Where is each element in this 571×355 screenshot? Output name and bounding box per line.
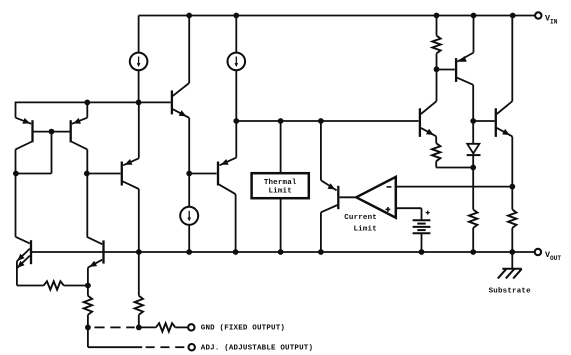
resistor R5 xyxy=(44,281,64,289)
wire Q1-Q2 base tie xyxy=(34,131,70,133)
transistor Q5 xyxy=(217,162,219,186)
wire U1 plus input xyxy=(396,207,422,209)
wire Q10 emitter2 diagonal xyxy=(17,256,30,269)
wire I2 bottom xyxy=(235,70,237,121)
wire Q6 emitter diagonal xyxy=(321,180,337,190)
wire Q2 collector diagonal xyxy=(71,142,87,150)
transistor Q3 xyxy=(171,90,173,114)
wire base tap drop xyxy=(51,132,53,174)
node D1-R3 junction xyxy=(470,165,476,171)
wire ADJ branch solid xyxy=(88,346,142,348)
wire Q4 base xyxy=(87,173,121,175)
label U1 minus input xyxy=(387,186,392,188)
wire R4 bottom lead xyxy=(511,228,513,252)
node rail-Q9 junction xyxy=(510,13,516,19)
svg-text:ADJ. (ADJUSTABLE OUTPUT): ADJ. (ADJUSTABLE OUTPUT) xyxy=(201,345,313,353)
node bias-I2 junction xyxy=(233,118,239,124)
svg-text:Limit: Limit xyxy=(353,226,376,234)
wire Q8 collector drop xyxy=(472,85,474,121)
wire Q3 collector riser xyxy=(188,16,190,84)
wire Q4 emitter diagonal xyxy=(123,158,139,165)
wire Q6 collector diagonal xyxy=(321,205,338,212)
wire Q1 collector diagonal xyxy=(16,142,33,150)
node Q8 collector-D1 junction xyxy=(470,118,476,124)
wire D1 cathode lead xyxy=(472,155,474,167)
wire Q2 collector drop xyxy=(86,149,88,236)
transistor Q11 xyxy=(102,240,104,263)
svg-text:Current: Current xyxy=(344,214,377,222)
node base tie tap xyxy=(49,129,55,135)
wire R2 to diode node xyxy=(436,167,473,169)
wire R7 bottom lead xyxy=(138,315,140,328)
wire Q9 collector diagonal xyxy=(497,101,513,114)
wire Q1 collector drop xyxy=(15,149,17,236)
transistor Q8 xyxy=(455,58,457,82)
wire Q7 emitter diagonal xyxy=(421,128,436,136)
node rail-thermal junction xyxy=(278,249,284,255)
node R7-GND net junction xyxy=(136,325,142,331)
terminal GND xyxy=(188,324,194,330)
wire Q8 collector diagonal xyxy=(457,78,473,85)
wire Q7 collector diagonal xyxy=(421,101,437,114)
terminal V_OUT xyxy=(535,249,541,255)
svg-text:Thermal: Thermal xyxy=(264,179,297,187)
node rail-R1 junction xyxy=(434,13,440,19)
transistor Q9 xyxy=(495,108,497,137)
svg-text:Substrate: Substrate xyxy=(489,287,531,295)
resistor R2 xyxy=(432,143,440,161)
wire V_OUT rail xyxy=(32,251,534,253)
wire I1 bottom xyxy=(138,70,140,102)
wire Q11 collector diagonal xyxy=(87,237,102,244)
wire Q4 collector diagonal xyxy=(123,181,139,189)
wire Q4 emitter feed xyxy=(138,102,140,158)
node rail-Q6 junction xyxy=(318,249,324,255)
wire Q7 emitter lead xyxy=(435,136,437,143)
wire R1 bottom lead xyxy=(436,53,438,69)
node rail-I2 junction xyxy=(233,13,239,19)
wire R7 top lead xyxy=(138,252,140,296)
wire Q10 emitter to R5 xyxy=(17,285,44,287)
transistor Q7 xyxy=(419,108,421,137)
resistor R6 xyxy=(84,296,92,315)
wire Q6 emitter feed xyxy=(320,121,322,180)
wire mirror bus y=102 xyxy=(16,101,171,103)
wire R6 bottom lead xyxy=(87,315,89,328)
terminal V_IN xyxy=(535,12,541,18)
wire Q9 collector riser xyxy=(511,16,513,102)
wire GND branch xyxy=(139,326,156,328)
wire Q1 emitter diagonal xyxy=(16,118,32,124)
wire R3 top lead xyxy=(472,168,474,210)
node bias-thermal junction xyxy=(278,118,284,124)
node Q2 emitter junction xyxy=(84,100,90,106)
wire Q2 emitter diagonal xyxy=(72,118,87,124)
wire Q10 emitter drop xyxy=(16,261,18,285)
wire U1 minus input xyxy=(396,186,513,188)
wire Q5 collector diagonal xyxy=(219,184,236,194)
node rail-V1 junction xyxy=(419,249,425,255)
wire Q7 collector riser xyxy=(436,69,438,101)
resistor R4 xyxy=(508,210,516,228)
resistor R3 xyxy=(469,210,477,228)
transistor Q1 xyxy=(31,120,33,142)
wire I3 bottom xyxy=(188,225,190,252)
node rail-Q4 junction xyxy=(136,249,142,255)
wire Q5 base xyxy=(189,173,216,175)
wire dashed feedback tap xyxy=(94,326,104,328)
wire I1 top xyxy=(138,16,140,53)
wire thermal limit top lead xyxy=(280,121,282,172)
current source I1 xyxy=(130,53,148,71)
wire R6 top lead xyxy=(87,286,89,296)
battery V1 reference xyxy=(413,219,431,221)
wire Q3 emitter diagonal xyxy=(173,109,189,118)
svg-text:GND (FIXED OUTPUT): GND (FIXED OUTPUT) xyxy=(201,325,285,333)
node rail-Q8 junction xyxy=(471,13,477,19)
wire plus input drop xyxy=(421,208,423,219)
node rail-R3 junction xyxy=(470,249,476,255)
wire Q11 emitter diagonal xyxy=(88,260,102,268)
current source I3 xyxy=(180,207,198,225)
wire Q5 collector drop xyxy=(235,194,237,252)
transistor Q10 xyxy=(30,240,32,264)
node Q4 emitter junction xyxy=(136,100,142,106)
wire base tap to mirror node xyxy=(15,173,51,175)
resistor R7 xyxy=(135,296,143,315)
diode D1 xyxy=(467,144,479,154)
wire V1 bottom xyxy=(421,233,423,252)
label U1 plus input xyxy=(386,208,391,210)
wire Q10 collector diagonal xyxy=(16,237,30,244)
node Q11 emitter-R5 junction xyxy=(85,283,91,289)
wire Q5 emitter diagonal xyxy=(220,158,237,166)
ground substrate symbol xyxy=(502,268,521,270)
wire Q4 collector drop xyxy=(138,189,140,252)
wire ADJ drop xyxy=(87,327,89,347)
wire bias bus y=121 xyxy=(236,120,418,122)
node rail-I3 junction xyxy=(186,249,192,255)
wire Q3 collector diagonal xyxy=(173,83,189,96)
op-amp U1 current limit amplifier xyxy=(356,177,396,218)
transistor Q6 xyxy=(337,186,339,209)
wire I2 top xyxy=(235,16,237,53)
wire Q5 emitter feed xyxy=(235,121,237,158)
wire Q8 base xyxy=(437,69,455,71)
wire Q11 emitter drop xyxy=(87,268,89,286)
resistor R1 xyxy=(432,36,440,54)
node Q3 emitter-Q5 base junction xyxy=(186,171,192,177)
node R1-Q8 base junction xyxy=(434,66,440,72)
wire Q10 emitter1 diagonal xyxy=(17,249,30,262)
svg-text:Limit: Limit xyxy=(268,188,291,196)
wire thermal limit bottom lead xyxy=(280,198,282,252)
wire top V_IN rail xyxy=(139,15,535,17)
label V1 plus xyxy=(426,212,430,214)
node minus wire junction xyxy=(509,184,515,190)
wire Q9 emitter diagonal xyxy=(497,128,513,136)
wire Q9 base xyxy=(473,120,494,122)
wire R2 bottom lead xyxy=(435,161,437,167)
node rail-Q3 junction xyxy=(186,13,192,19)
wire R1 top lead xyxy=(436,16,438,36)
wire Q1 emitter feed xyxy=(15,102,17,118)
wire R8 to GND terminal xyxy=(175,326,188,328)
wire ADJ branch dashed xyxy=(146,346,155,348)
wire Q2 emitter feed xyxy=(86,102,88,117)
node rail-Q5 junction xyxy=(233,249,239,255)
node bias-Q6 junction xyxy=(318,118,324,124)
wire R5 to Q11 emitter node xyxy=(64,285,88,287)
transistor Q2 xyxy=(70,120,72,142)
wire Q6 collector drop xyxy=(320,212,322,252)
wire D1 anode lead xyxy=(472,121,474,144)
wire R3 bottom lead xyxy=(472,228,474,252)
node R6-GND net junction xyxy=(85,325,91,331)
node rail-R4 junction xyxy=(509,249,515,255)
current source I2 xyxy=(228,53,246,71)
node Q2 collector node B xyxy=(84,171,90,177)
wire Q6 base to op-amp xyxy=(340,196,357,198)
block Thermal Limit box xyxy=(252,173,309,198)
wire Q9 emitter drop xyxy=(511,136,513,209)
wire Q3 emitter drop xyxy=(188,118,190,207)
resistor R8 xyxy=(156,323,175,331)
wire Q8 emitter diagonal xyxy=(457,53,473,62)
terminal ADJ xyxy=(189,344,195,350)
transistor Q4 xyxy=(121,162,123,186)
wire substrate lead xyxy=(511,252,513,269)
node mirror diode node A xyxy=(13,171,19,177)
wire Q8 emitter riser xyxy=(473,16,475,53)
